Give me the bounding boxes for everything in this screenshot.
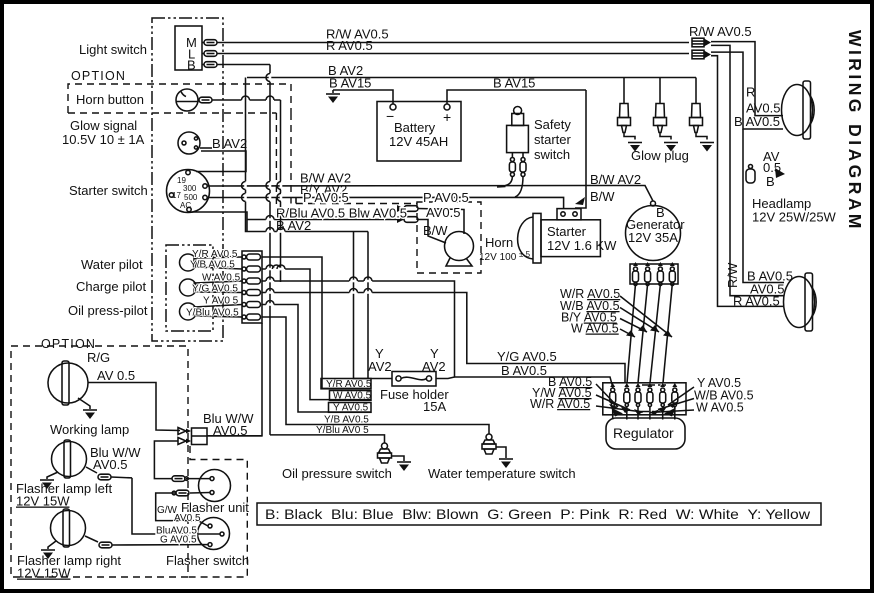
svg-text:OPTION: OPTION [41, 337, 96, 351]
svg-text:switch: switch [534, 147, 570, 162]
svg-text:Y/G AV0.5: Y/G AV0.5 [192, 284, 238, 295]
svg-text:12V 1.6 KW: 12V 1.6 KW [547, 238, 617, 253]
svg-text:R/W AV0.5: R/W AV0.5 [689, 24, 752, 39]
svg-text:W AV0.5: W AV0.5 [696, 401, 744, 415]
svg-text:B/W: B/W [590, 189, 615, 204]
svg-text:B: Black Blu: Blue Blw: Blow: B: Black Blu: Blue Blw: Blown G: Green P… [265, 506, 811, 522]
svg-text:Safety: Safety [534, 117, 571, 132]
svg-text:Charge pilot: Charge pilot [76, 279, 146, 294]
svg-text:WIRING DIAGRAM: WIRING DIAGRAM [845, 30, 865, 230]
svg-text:Y/Blu AV0 5: Y/Blu AV0 5 [316, 425, 369, 436]
svg-text:Glow plug: Glow plug [631, 148, 689, 163]
svg-text:P AV0.5: P AV0.5 [423, 190, 469, 205]
svg-text:W AV0.5: W AV0.5 [333, 391, 372, 402]
svg-text:B: B [766, 174, 775, 189]
svg-text:B: B [187, 58, 196, 73]
svg-text:Starter: Starter [547, 224, 587, 239]
svg-text:12V 15W: 12V 15W [16, 494, 70, 509]
svg-text:Y/Blu AV0.5: Y/Blu AV0.5 [186, 308, 239, 319]
svg-text:Oil press-pilot: Oil press-pilot [68, 303, 148, 318]
svg-text:B/W: B/W [423, 223, 448, 238]
svg-text:W AV0.5: W AV0.5 [571, 322, 619, 336]
svg-text:B AV0.5: B AV0.5 [501, 363, 547, 378]
svg-text:Y AV0 5: Y AV0 5 [203, 296, 239, 307]
svg-text:AV0.5: AV0.5 [426, 205, 460, 220]
svg-text:300: 300 [183, 184, 197, 193]
svg-text:W AV0.5: W AV0.5 [202, 273, 241, 284]
svg-text:AV2: AV2 [368, 359, 392, 374]
svg-text:AV0.5: AV0.5 [174, 513, 201, 524]
svg-text:Starter switch: Starter switch [69, 183, 148, 198]
svg-text:Y AV0.5: Y AV0.5 [333, 403, 369, 414]
svg-text:Oil pressure switch: Oil pressure switch [282, 466, 392, 481]
svg-text:Working lamp: Working lamp [50, 422, 129, 437]
svg-text:AV0.5: AV0.5 [93, 457, 127, 472]
svg-text:starter: starter [534, 132, 572, 147]
svg-text:−: − [386, 108, 394, 124]
svg-text:17: 17 [172, 191, 181, 200]
svg-text:12V 35A: 12V 35A [628, 230, 678, 245]
svg-text:12V 25W/25W: 12V 25W/25W [752, 210, 837, 225]
svg-text:+: + [443, 109, 451, 125]
svg-text:Water pilot: Water pilot [81, 257, 143, 272]
svg-text:Y/R AV0.5: Y/R AV0.5 [192, 249, 238, 260]
svg-text:B AV2: B AV2 [276, 218, 311, 233]
svg-text:Battery: Battery [394, 120, 436, 135]
svg-text:10.5V 10 ± 1A: 10.5V 10 ± 1A [62, 132, 145, 147]
svg-text:B AV2: B AV2 [212, 136, 247, 151]
svg-text:AV2: AV2 [422, 359, 446, 374]
svg-text:Horn: Horn [485, 235, 513, 250]
svg-text:Flasher switch: Flasher switch [166, 553, 249, 568]
svg-text:OPTION: OPTION [71, 69, 126, 83]
svg-text:Horn button: Horn button [76, 92, 144, 107]
svg-text:P AV0.5: P AV0.5 [303, 190, 349, 205]
svg-text:Y/G AV0.5: Y/G AV0.5 [497, 349, 557, 364]
svg-text:G AV0.5: G AV0.5 [160, 535, 197, 546]
svg-text:Y/R AV0.5: Y/R AV0.5 [326, 379, 372, 390]
svg-text:R/G: R/G [87, 350, 110, 365]
svg-text:Water temperature switch: Water temperature switch [428, 466, 576, 481]
svg-text:Y/B AV0.5: Y/B AV0.5 [324, 415, 369, 426]
svg-text:R: R [746, 85, 755, 100]
svg-text:12V 45AH: 12V 45AH [389, 134, 448, 149]
svg-text:Light switch: Light switch [79, 42, 147, 57]
svg-text:15A: 15A [423, 399, 446, 414]
svg-text:AV 0.5: AV 0.5 [97, 368, 135, 383]
svg-text:Glow signal: Glow signal [70, 118, 137, 133]
svg-text:R/W: R/W [725, 262, 740, 288]
svg-text:W/R AV0.5: W/R AV0.5 [530, 397, 590, 411]
svg-text:R AV0.5: R AV0.5 [326, 38, 373, 53]
svg-text:Y/B AV0.5: Y/B AV0.5 [190, 260, 235, 271]
svg-text:Regulator: Regulator [613, 425, 674, 441]
svg-text:AC: AC [180, 201, 191, 210]
svg-text:12V 15W: 12V 15W [17, 566, 71, 581]
